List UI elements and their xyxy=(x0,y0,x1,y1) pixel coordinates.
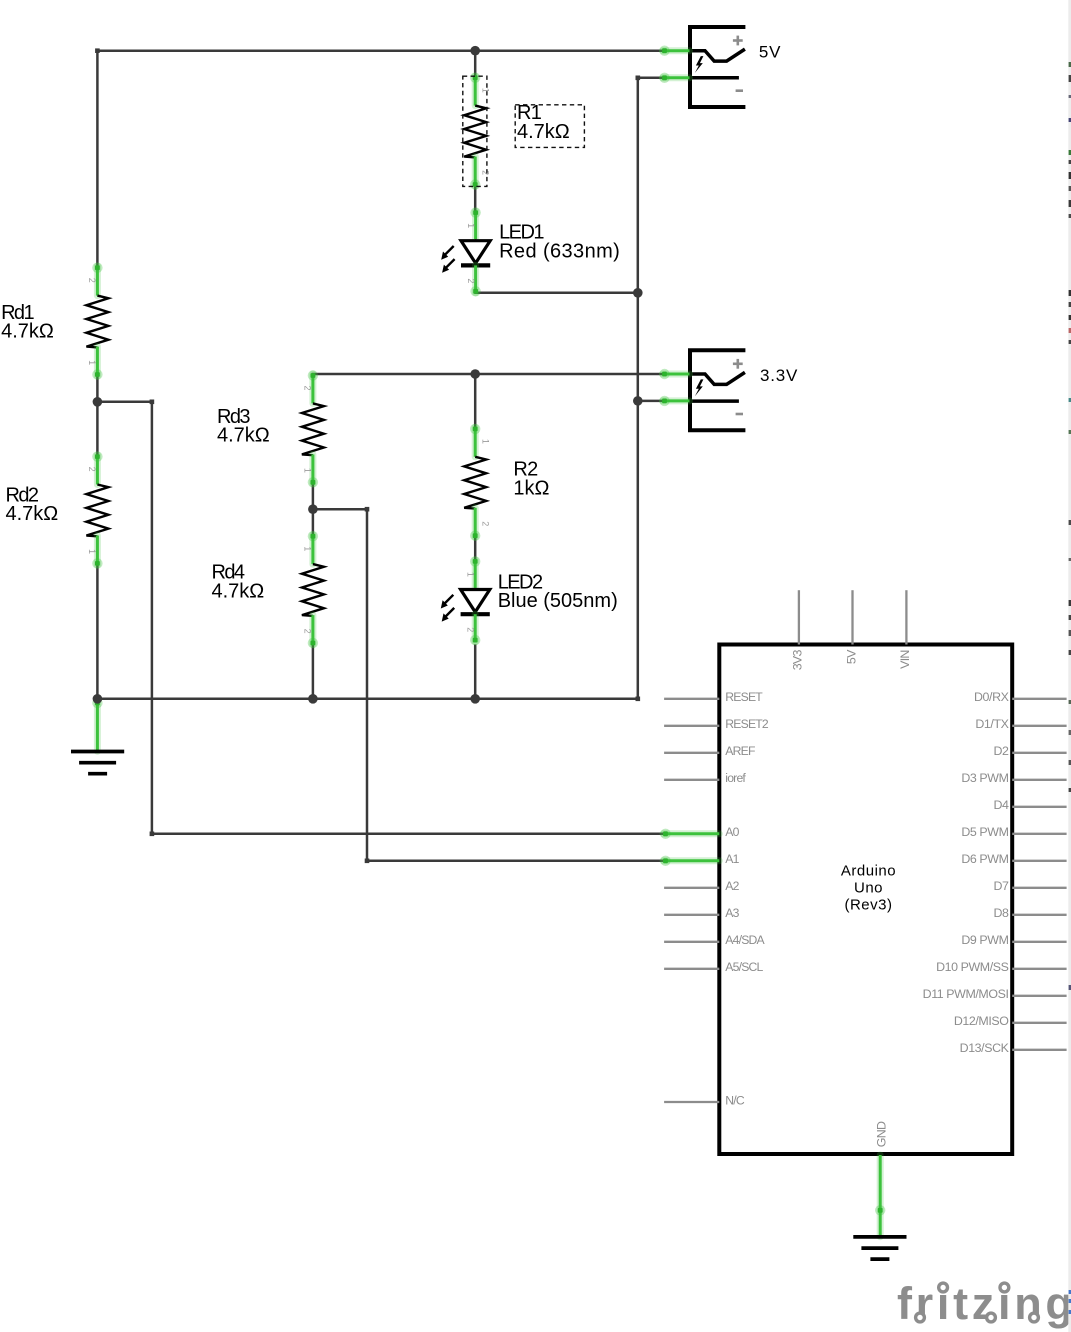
svg-text:Uno: Uno xyxy=(854,880,883,897)
svg-text:N/C: N/C xyxy=(725,1093,745,1107)
svg-text:A2: A2 xyxy=(725,879,739,893)
svg-text:AREF: AREF xyxy=(725,744,755,758)
svg-text:1: 1 xyxy=(302,546,312,551)
svg-text:1: 1 xyxy=(302,468,312,473)
svg-text:4.7kΩ: 4.7kΩ xyxy=(1,321,54,343)
svg-text:D8: D8 xyxy=(993,906,1009,920)
svg-text:VIN: VIN xyxy=(898,650,912,669)
svg-text:1kΩ: 1kΩ xyxy=(513,477,549,499)
svg-text:D4: D4 xyxy=(993,798,1009,812)
svg-text:4.7kΩ: 4.7kΩ xyxy=(212,581,265,603)
svg-text:1: 1 xyxy=(466,223,476,228)
svg-text:D9 PWM: D9 PWM xyxy=(961,933,1008,947)
svg-text:D12/MISO: D12/MISO xyxy=(954,1014,1009,1028)
svg-text:2: 2 xyxy=(481,521,491,526)
svg-text:1: 1 xyxy=(87,360,97,365)
svg-text:1: 1 xyxy=(465,572,475,577)
svg-text:D5 PWM: D5 PWM xyxy=(961,825,1008,839)
svg-text:2: 2 xyxy=(302,385,312,390)
svg-text:4.7kΩ: 4.7kΩ xyxy=(517,121,570,143)
svg-text:2: 2 xyxy=(87,467,97,472)
svg-text:2: 2 xyxy=(481,170,491,175)
svg-text:GND: GND xyxy=(875,1121,889,1147)
svg-text:A0: A0 xyxy=(725,825,739,839)
svg-text:A1: A1 xyxy=(725,852,739,866)
svg-text:2: 2 xyxy=(465,627,475,632)
svg-text:A5/SCL: A5/SCL xyxy=(725,960,763,974)
svg-text:D3 PWM: D3 PWM xyxy=(961,771,1008,785)
svg-text:D10 PWM/SS: D10 PWM/SS xyxy=(936,960,1009,974)
svg-text:D13/SCK: D13/SCK xyxy=(960,1041,1010,1055)
svg-text:1: 1 xyxy=(481,439,491,444)
svg-text:3V3: 3V3 xyxy=(791,649,805,670)
svg-text:A4/SDA: A4/SDA xyxy=(725,933,765,947)
svg-text:ioref: ioref xyxy=(725,771,746,785)
svg-text:D0/RX: D0/RX xyxy=(974,690,1009,704)
svg-text:Blue (505nm): Blue (505nm) xyxy=(498,590,618,612)
svg-text:D7: D7 xyxy=(993,879,1009,893)
svg-text:2: 2 xyxy=(87,278,97,283)
svg-text:2: 2 xyxy=(466,278,476,283)
svg-text:Arduino: Arduino xyxy=(841,863,896,880)
svg-text:1: 1 xyxy=(481,88,491,93)
svg-text:1: 1 xyxy=(87,549,97,554)
svg-text:5V: 5V xyxy=(844,649,858,664)
svg-text:Red (633nm): Red (633nm) xyxy=(499,240,620,262)
svg-text:D1/TX: D1/TX xyxy=(975,717,1008,731)
svg-text:3.3V: 3.3V xyxy=(760,366,798,385)
svg-text:(Rev3): (Rev3) xyxy=(844,897,892,914)
svg-text:D2: D2 xyxy=(993,744,1009,758)
svg-text:A3: A3 xyxy=(725,906,739,920)
svg-text:5V: 5V xyxy=(759,43,781,62)
svg-text:RESET2: RESET2 xyxy=(725,717,769,731)
svg-text:RESET: RESET xyxy=(725,690,763,704)
svg-text:D6 PWM: D6 PWM xyxy=(961,852,1008,866)
svg-text:2: 2 xyxy=(302,629,312,634)
svg-text:4.7kΩ: 4.7kΩ xyxy=(217,425,270,447)
svg-text:4.7kΩ: 4.7kΩ xyxy=(6,503,59,525)
svg-text:D11 PWM/MOSI: D11 PWM/MOSI xyxy=(923,987,1009,1001)
